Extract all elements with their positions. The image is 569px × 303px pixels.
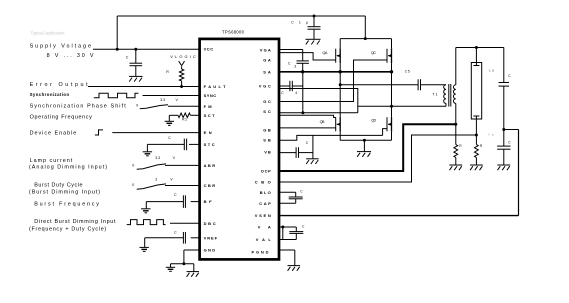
- svg-text:C: C: [174, 231, 177, 235]
- svg-text:Burst Duty Cycle: Burst Duty Cycle: [34, 182, 82, 188]
- svg-text:FM: FM: [204, 104, 213, 109]
- svg-text:3.3: 3.3: [155, 156, 160, 160]
- svg-text:4: 4: [295, 91, 297, 95]
- svg-text:QC: QC: [371, 51, 376, 55]
- svg-text:PGND: PGND: [252, 250, 269, 255]
- svg-text:SYNC: SYNC: [204, 93, 217, 98]
- svg-text:Typical Application: Typical Application: [31, 31, 66, 36]
- svg-text:QA: QA: [322, 51, 327, 55]
- svg-text:TPS68000: TPS68000: [222, 29, 245, 34]
- svg-text:0: 0: [132, 183, 134, 187]
- svg-text:C: C: [174, 193, 177, 197]
- svg-text:GND: GND: [204, 248, 216, 253]
- svg-text:T1: T1: [432, 92, 437, 96]
- svg-text:GB: GB: [263, 128, 271, 133]
- svg-text:OCP: OCP: [261, 169, 271, 174]
- svg-text:VGC: VGC: [259, 84, 271, 89]
- svg-text:C B O: C B O: [255, 180, 271, 185]
- svg-text:VB: VB: [264, 150, 271, 155]
- svg-text:CBR: CBR: [204, 183, 216, 188]
- svg-text:Device Enable: Device Enable: [30, 130, 77, 136]
- svg-text:Synchronization Phase Shift: Synchronization Phase Shift: [30, 104, 127, 110]
- svg-text:VCC: VCC: [204, 47, 214, 52]
- svg-text:(Frequency + Duty Cycle): (Frequency + Duty Cycle): [29, 226, 106, 232]
- svg-text:R: R: [166, 70, 169, 74]
- svg-text:C5: C5: [405, 70, 410, 74]
- svg-text:QB: QB: [320, 120, 325, 124]
- svg-text:VSEN: VSEN: [255, 213, 271, 218]
- svg-text:0: 0: [136, 103, 138, 107]
- svg-text:C: C: [126, 55, 129, 59]
- svg-text:Direct Burst Dimming Input: Direct Burst Dimming Input: [34, 219, 116, 225]
- svg-text:Is: Is: [489, 132, 495, 136]
- svg-text:VGA: VGA: [260, 48, 271, 53]
- svg-text:Synchronization: Synchronization: [30, 92, 70, 97]
- svg-text:SB: SB: [263, 138, 271, 143]
- svg-text:STC: STC: [204, 142, 215, 147]
- svg-text:SA: SA: [263, 69, 271, 74]
- svg-text:(Burst Dimming Input): (Burst Dimming Input): [29, 189, 100, 195]
- svg-text:V A: V A: [258, 225, 271, 230]
- svg-text:ABR: ABR: [204, 163, 216, 168]
- svg-text:VREF: VREF: [204, 235, 218, 240]
- svg-text:3: 3: [155, 178, 157, 182]
- svg-text:DBC: DBC: [204, 221, 216, 226]
- svg-text:GC: GC: [263, 99, 271, 104]
- svg-text:SCT: SCT: [204, 113, 216, 118]
- svg-text:Operating Frequency: Operating Frequency: [30, 115, 92, 121]
- svg-text:GA: GA: [263, 58, 271, 63]
- svg-text:C: C: [288, 61, 291, 65]
- svg-text:CAP: CAP: [259, 201, 271, 206]
- svg-text:SC: SC: [263, 109, 271, 114]
- svg-text:3.3: 3.3: [160, 98, 165, 102]
- svg-text:3: 3: [294, 65, 296, 69]
- svg-text:C: C: [168, 136, 171, 140]
- svg-text:V A L: V A L: [256, 237, 272, 242]
- svg-text:0: 0: [132, 164, 134, 168]
- svg-text:R1: R1: [182, 118, 187, 122]
- svg-text:Lamp current: Lamp current: [30, 158, 73, 164]
- svg-text:(Analog Dimming Input): (Analog Dimming Input): [29, 164, 107, 170]
- svg-text:C 1 µ: C 1 µ: [291, 20, 308, 24]
- svg-text:QD: QD: [371, 119, 376, 123]
- svg-text:BLO: BLO: [260, 190, 271, 195]
- svg-text:F A U L T: F A U L T: [204, 84, 227, 89]
- svg-text:La: La: [489, 68, 494, 72]
